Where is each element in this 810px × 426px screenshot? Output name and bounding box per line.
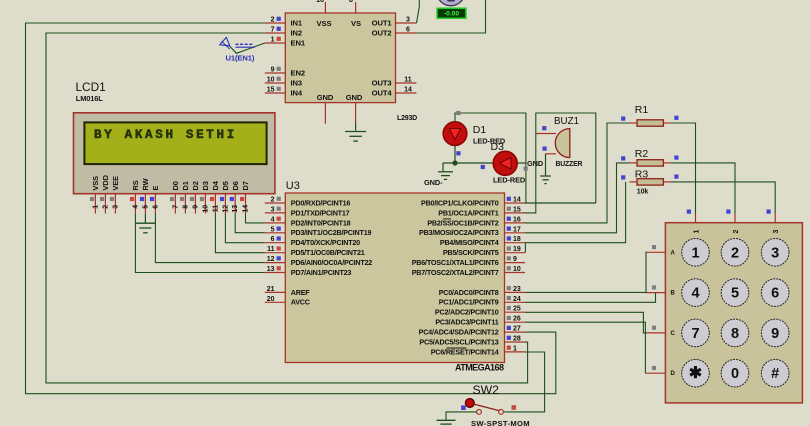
svg-text:EN1: EN1 (291, 39, 306, 48)
svg-text:LCD1: LCD1 (76, 80, 106, 94)
svg-text:#: # (771, 366, 779, 382)
U3 pin 28 (PC5) stub (505, 341, 526, 343)
wire buzzer pin2 to ground (545, 154, 547, 176)
keypad button # (761, 359, 789, 387)
L293D pin 2 indicator square (277, 17, 281, 21)
svg-text:AREF: AREF (291, 288, 311, 297)
svg-text:9: 9 (513, 256, 517, 263)
svg-text:RS: RS (131, 180, 140, 190)
svg-text:19: 19 (513, 246, 521, 253)
U3 pin 26 (PC3) stub (505, 321, 526, 323)
L293D GND pin lead right (355, 103, 357, 123)
LCD pin 3 lead (114, 194, 116, 214)
svg-text:B: B (671, 291, 676, 297)
U3 pin 23 indicator square (507, 286, 511, 290)
U3 pin 25 indicator square (507, 306, 511, 310)
motor (clipped at top edge) (437, 0, 465, 6)
keypad button 6 (761, 279, 789, 307)
svg-text:2: 2 (271, 197, 275, 204)
svg-text:EN2: EN2 (291, 69, 305, 78)
U3 pin 13 indicator square (277, 266, 281, 270)
svg-text:PD2/INT0/PCINT18: PD2/INT0/PCINT18 (291, 218, 351, 227)
svg-text:7: 7 (271, 27, 275, 34)
L293D pin EN1 (pin 1) stub (265, 42, 286, 44)
U3 pin 12 indicator square (277, 256, 281, 260)
svg-text:D3: D3 (491, 141, 505, 153)
U3 pin 3 indicator square (277, 207, 281, 211)
wire D1 anode to ATmega pin 14 (455, 113, 526, 203)
U3 pin 16 (PB2) stub (505, 222, 526, 224)
buzzer pin 2 lead (546, 153, 557, 155)
svg-text:D: D (671, 371, 676, 377)
L293D pin IN1 (pin 2) stub (265, 22, 286, 24)
svg-text:11: 11 (267, 246, 275, 253)
LCD pin 14 indicator square (240, 197, 244, 201)
U3 pin 18 (PB4) stub (505, 242, 526, 244)
U3 pin 16 indicator square (507, 217, 511, 221)
keypad button 5 (721, 279, 749, 307)
keypad column 3 pin lead (774, 214, 776, 223)
IC U3 ATMEGA168 body (285, 193, 504, 363)
svg-text:VSS: VSS (317, 19, 332, 28)
wire junction to ground left (442, 163, 444, 171)
wire LCD D5 to ATmega pin 6 (225, 214, 264, 243)
U3 pin 27 indicator square (507, 326, 511, 330)
svg-text:OUT2: OUT2 (372, 29, 392, 38)
terminal symbol U1(EN1) (220, 37, 230, 45)
svg-text:7: 7 (172, 205, 179, 209)
svg-text:PC0/ADC0/PCINT8: PC0/ADC0/PCINT8 (439, 288, 499, 297)
U3 pin 5 indicator square (277, 227, 281, 231)
L293D pin VSS top lead (324, 2, 326, 13)
junction node at D1/D3/ground (452, 160, 457, 165)
svg-text:3: 3 (406, 17, 410, 24)
LCD pin 10 lead (204, 194, 206, 214)
buzzer BUZ1 body (555, 129, 570, 158)
svg-text:VSS: VSS (91, 176, 100, 191)
svg-text:8: 8 (349, 0, 353, 4)
svg-text:IN4: IN4 (291, 89, 303, 98)
keypad row A pin lead (645, 251, 665, 253)
L293D GND pin lead left (unconnected) (324, 103, 326, 124)
svg-text:14: 14 (242, 205, 249, 213)
LCD LCD1 frame (74, 113, 275, 194)
LCD pin 1 indicator square (90, 197, 94, 201)
keypad row B indicator square (652, 285, 656, 289)
svg-text:5: 5 (142, 205, 149, 209)
indicator square buzzer pin2 (543, 147, 547, 151)
junction square at D1 top wire (456, 111, 460, 115)
U3 pin 18 indicator square (507, 236, 511, 240)
keypad column 3 indicator square (767, 210, 771, 214)
svg-text:12: 12 (267, 256, 275, 263)
svg-text:-0.00: -0.00 (444, 11, 459, 18)
buzzer pin 1 lead (536, 133, 556, 135)
keypad button 7 (682, 319, 710, 347)
svg-text:R1: R1 (635, 104, 649, 116)
svg-text:LM016L: LM016L (76, 94, 104, 103)
svg-text:15: 15 (267, 87, 275, 94)
overline on RESET of PC6 pin name (447, 347, 467, 349)
keypad button 8 (721, 319, 749, 347)
svg-text:PC1/ADC1/PCINT9: PC1/ADC1/PCINT9 (439, 298, 499, 307)
U3 pin 6 (PD4) stub (265, 242, 286, 244)
svg-text:AVCC: AVCC (291, 298, 310, 307)
svg-text:9: 9 (771, 326, 779, 342)
keypad row C pin lead (645, 332, 665, 334)
svg-text:6: 6 (406, 27, 410, 34)
svg-text:PB0/ICP1/CLKO/PCINT0: PB0/ICP1/CLKO/PCINT0 (421, 198, 499, 207)
indicator squares R3 (621, 175, 625, 179)
svg-text:3: 3 (271, 206, 275, 213)
svg-text:SW-SPST-MOM: SW-SPST-MOM (471, 419, 530, 426)
resistor R3 body (637, 179, 663, 185)
svg-text:16: 16 (316, 0, 324, 4)
wire LCD D7 to ATmega pin 4 (246, 214, 265, 223)
svg-text:4: 4 (271, 216, 275, 223)
U3 pin 9 (PB6) stub (505, 262, 526, 264)
svg-text:4: 4 (691, 286, 699, 302)
svg-text:1: 1 (693, 230, 700, 234)
svg-text:10k: 10k (637, 188, 649, 195)
svg-text:15: 15 (513, 206, 521, 213)
svg-text:8: 8 (731, 326, 739, 342)
LCD pin 1 lead (94, 194, 96, 214)
svg-text:1: 1 (92, 205, 99, 209)
svg-text:12: 12 (222, 205, 229, 213)
svg-text:PB2/SS/OC1B/PCINT2: PB2/SS/OC1B/PCINT2 (427, 218, 498, 227)
keypad column 2 pin lead (734, 214, 736, 223)
svg-text:6: 6 (152, 205, 159, 209)
svg-text:8: 8 (182, 205, 189, 209)
svg-text:BUZZER: BUZZER (556, 161, 583, 168)
indicator square buzzer pin1 (542, 126, 546, 130)
switch SW2 left pole (477, 410, 482, 415)
wire ATmega pin26 to keypad row D (525, 322, 645, 373)
svg-text:VS: VS (351, 19, 361, 28)
svg-text:U1(EN1): U1(EN1) (226, 54, 255, 63)
svg-text:OUT4: OUT4 (372, 89, 393, 98)
svg-text:PC5/ADC5/SCL/PCINT13: PC5/ADC5/SCL/PCINT13 (419, 337, 498, 346)
U3 pin 25 (PC2) stub (505, 311, 526, 313)
wire ATmega pin16 to R1 (525, 123, 630, 223)
wire buzzer pin1 up and over to pin14 net (536, 113, 596, 203)
LCD pin 8 indicator square (180, 197, 184, 201)
svg-text:RW: RW (141, 178, 150, 190)
svg-text:U3: U3 (286, 180, 300, 192)
switch SW2 actuator knob (465, 399, 474, 408)
svg-text:1: 1 (271, 37, 275, 44)
svg-text:PD1/TXD/PCINT17: PD1/TXD/PCINT17 (291, 208, 350, 217)
U3 pin 4 (PD2) stub (265, 222, 286, 224)
svg-text:PD6/AIN0/OC0A/PCINT22: PD6/AIN0/OC0A/PCINT22 (291, 258, 372, 267)
LCD pin 6 indicator square (150, 197, 154, 201)
keypad column 2 indicator square (726, 210, 730, 214)
L293D pin IN3 (pin 10) stub (265, 82, 286, 84)
svg-text:3: 3 (773, 230, 780, 234)
svg-text:IN2: IN2 (291, 29, 303, 38)
U3 pin 15 (PB1) stub (505, 212, 526, 214)
svg-text:PB5/SCK/PCINT5: PB5/SCK/PCINT5 (443, 248, 499, 257)
U3 pin 14 indicator square (507, 197, 511, 201)
L293D pin 7 indicator square (277, 27, 281, 31)
wire R3 to keypad column 3 (671, 182, 775, 214)
LCD screen (84, 122, 266, 164)
wire D1 cathode down to junction (454, 145, 456, 163)
motor rpm display (437, 8, 466, 18)
U3 pin 12 (PD6) stub (265, 262, 286, 264)
wire ATmega pin24 to keypad row B (525, 293, 656, 303)
svg-text:D2: D2 (191, 181, 200, 190)
wire buzzer pin1 down to ATmega pin 15 (525, 134, 536, 213)
svg-text:PB6/TOSC1/XTAL1/PCINT6: PB6/TOSC1/XTAL1/PCINT6 (412, 258, 499, 267)
U3 pin 19 indicator square (507, 246, 511, 250)
svg-text:21: 21 (267, 286, 275, 293)
svg-text:11: 11 (404, 77, 412, 84)
LCD pin 11 indicator square (210, 197, 214, 201)
U3 pin 15 indicator square (507, 207, 511, 211)
U3 pin 5 (PD3) stub (265, 232, 286, 234)
wire SW2 left pole to ground (446, 412, 477, 420)
svg-text:E: E (151, 186, 160, 191)
L293D pin OUT4 (pin 14) stub (396, 92, 417, 94)
wire D3 cathode to GND net (517, 162, 526, 164)
U3 pin 14 (PB0) stub (505, 202, 526, 204)
svg-text:6: 6 (771, 286, 779, 302)
LCD pin 10 indicator square (200, 197, 204, 201)
LCD pin 13 indicator square (230, 197, 234, 201)
LCD pin 7 lead (174, 194, 176, 214)
LCD pin 4 indicator square (130, 197, 134, 201)
overline on SS of PB2 pin name (443, 218, 451, 220)
keypad row C indicator square (652, 326, 656, 330)
keypad button 3 (761, 239, 789, 267)
svg-text:SW2: SW2 (473, 383, 500, 397)
L293D pin 1 indicator square (277, 37, 281, 41)
svg-text:OUT3: OUT3 (372, 79, 392, 88)
wire LCD E to ATmega pin 12 (155, 214, 264, 263)
U3 pin 23 (PC0) stub (505, 291, 526, 293)
LCD pin 14 lead (245, 194, 247, 214)
U3 pin 24 indicator square (507, 296, 511, 300)
svg-text:PD7/AIN1/PCINT23: PD7/AIN1/PCINT23 (291, 268, 352, 277)
svg-text:5: 5 (271, 226, 275, 233)
ground below SW2 (437, 419, 456, 421)
svg-text:16: 16 (513, 216, 521, 223)
ground below LCD RW (135, 222, 155, 224)
svg-text:17: 17 (513, 226, 521, 233)
L293D pin OUT3 (pin 11) stub (396, 82, 417, 84)
LCD pin 7 indicator square (170, 197, 174, 201)
U3 pin 4 indicator square (277, 217, 281, 221)
wire LCD D4 to ATmega pin 11 (215, 214, 264, 253)
svg-text:5: 5 (731, 286, 739, 302)
U3 pin 2 indicator square (277, 197, 281, 201)
svg-text:D1: D1 (473, 124, 487, 136)
L293D pin IN2 (pin 7) stub (265, 32, 286, 34)
svg-text:10: 10 (267, 77, 275, 84)
U3 pin 11 (PD5) stub (265, 252, 286, 254)
svg-text:PB7/TOSC2/XTAL2/PCINT7: PB7/TOSC2/XTAL2/PCINT7 (412, 268, 499, 277)
svg-text:10: 10 (513, 266, 521, 273)
wire ATmega pin1 to SW2 (504, 352, 545, 412)
U3 pin 21 (AREF) stub (265, 291, 286, 293)
svg-text:VEE: VEE (111, 176, 120, 191)
svg-text:GND-: GND- (424, 178, 443, 187)
svg-text:PC6/RESET/PCINT14: PC6/RESET/PCINT14 (431, 347, 499, 356)
keypad column 1 pin lead (695, 214, 697, 223)
wire ATmega pin19 tie to pin18 net (524, 243, 526, 253)
switch SW2 lever (472, 404, 500, 411)
svg-text:PB4/MISO/PCINT4: PB4/MISO/PCINT4 (440, 238, 499, 247)
svg-text:L293D: L293D (397, 115, 417, 122)
L293D pin OUT1 (pin 3) stub (396, 22, 417, 24)
keypad button 0 (721, 359, 749, 387)
LCD pin 3 indicator square (110, 197, 114, 201)
U3 pin 26 indicator square (507, 316, 511, 320)
svg-text:PB3/MOSI/OC2A/PCINT3: PB3/MOSI/OC2A/PCINT3 (419, 228, 499, 237)
LCD pin 8 lead (184, 194, 186, 214)
ground below buzzer (540, 175, 551, 177)
LCD pin 12 lead (224, 194, 226, 214)
U3 pin 27 (PC4) stub (505, 331, 526, 333)
svg-text:✱: ✱ (689, 365, 702, 382)
svg-text:D1: D1 (181, 181, 190, 190)
U3 pin 9 indicator square (507, 256, 511, 260)
svg-text:PD3/INT1/OC2B/PCINT19: PD3/INT1/OC2B/PCINT19 (291, 228, 372, 237)
U3 pin 28 indicator square (507, 336, 511, 340)
wire LCD D6 to ATmega pin 5 (235, 214, 265, 233)
wire OUT2 to motor (417, 0, 486, 33)
LCD pin 6 lead (154, 194, 156, 214)
svg-text:PD5/T1/OC0B/PCINT21: PD5/T1/OC0B/PCINT21 (291, 248, 365, 257)
svg-text:BY AKASH SETHI: BY AKASH SETHI (94, 128, 237, 142)
U3 pin 6 indicator square (277, 236, 281, 240)
svg-text:26: 26 (513, 316, 521, 323)
U3 pin 20 (AVCC) stub (265, 301, 286, 303)
svg-text:PC3/ADC3/PCINT11: PC3/ADC3/PCINT11 (435, 318, 498, 327)
svg-text:1: 1 (691, 245, 699, 261)
svg-text:BUZ1: BUZ1 (554, 116, 579, 127)
L293D pin VS top lead (355, 2, 357, 13)
svg-text:3: 3 (771, 245, 779, 261)
svg-text:D5: D5 (221, 181, 230, 190)
L293D pin IN4 (pin 15) stub (265, 92, 286, 94)
wire net IN2 - left loop to ATmega pin 28 (46, 33, 528, 383)
svg-text:1: 1 (513, 345, 517, 352)
indicator square on D3 left wire (481, 165, 485, 169)
wire L293D GND to ground (355, 123, 357, 131)
wire ATmega pin18 to R3 (525, 182, 626, 243)
LCD pin 12 indicator square (220, 197, 224, 201)
U3 pin 24 (PC1) stub (505, 301, 526, 303)
switch SW2 right pole (499, 410, 504, 415)
wire R2 to keypad column 2 (671, 163, 735, 214)
svg-text:IN3: IN3 (291, 79, 303, 88)
svg-text:23: 23 (513, 286, 521, 293)
keypad button 1 (682, 239, 710, 267)
LCD pin 2 indicator square (100, 197, 104, 201)
U3 pin 17 indicator square (507, 227, 511, 231)
svg-text:3: 3 (112, 205, 119, 209)
svg-text:GND: GND (346, 93, 363, 102)
svg-text:PB1/OC1A/PCINT1: PB1/OC1A/PCINT1 (438, 208, 498, 217)
svg-text:2: 2 (731, 245, 739, 261)
LCD pin 9 indicator square (190, 197, 194, 201)
wire junction to D3 anode (443, 162, 493, 164)
svg-text:GND: GND (317, 93, 334, 102)
svg-text:LED-RED: LED-RED (493, 176, 526, 185)
U3 pin 13 (PD7) stub (265, 272, 286, 274)
keypad button ✱ (682, 359, 710, 387)
LED D1 (443, 122, 467, 146)
keypad row A indicator square (652, 245, 656, 249)
svg-text:0: 0 (731, 366, 739, 382)
LCD pin 4 lead (134, 194, 136, 214)
indicator square SW2 left (461, 405, 466, 410)
indicator square SW2 right (512, 405, 517, 410)
svg-text:D4: D4 (211, 180, 220, 190)
ground left of D3 (438, 171, 453, 173)
U3 pin 17 (PB3) stub (505, 232, 526, 234)
svg-text:PC4/ADC4/SDA/PCINT12: PC4/ADC4/SDA/PCINT12 (419, 328, 499, 337)
svg-text:14: 14 (404, 87, 412, 94)
svg-text:11: 11 (212, 205, 219, 213)
keypad column 1 indicator square (687, 210, 691, 214)
L293D pin 9 indicator square (277, 67, 281, 71)
indicator squares R1 (621, 117, 625, 121)
wire ATmega pin25 to keypad row C (525, 312, 645, 333)
svg-text:PC2/ADC2/PCINT10: PC2/ADC2/PCINT10 (435, 308, 499, 317)
svg-text:27: 27 (513, 326, 521, 333)
svg-text:9: 9 (192, 205, 199, 209)
svg-text:20: 20 (267, 296, 275, 303)
svg-text:14: 14 (513, 197, 521, 204)
svg-text:7: 7 (691, 326, 699, 342)
LCD pin 5 indicator square (140, 197, 144, 201)
svg-text:2: 2 (102, 205, 109, 209)
svg-text:24: 24 (513, 296, 521, 303)
L293D pin OUT2 (pin 6) stub (396, 32, 417, 34)
svg-text:IN1: IN1 (291, 19, 303, 28)
svg-text:6: 6 (271, 236, 275, 243)
keypad button 4 (682, 279, 710, 307)
keypad row D indicator square (652, 366, 656, 370)
wire R1 to keypad column 1 (671, 123, 696, 214)
L293D pin EN2 (pin 9) stub (265, 72, 286, 74)
svg-text:25: 25 (513, 306, 521, 313)
LCD pin 13 lead (234, 194, 236, 214)
wire EN1 to terminal U1(EN1) (229, 43, 265, 53)
svg-text:18: 18 (513, 236, 521, 243)
indicator square at D3 cathode (524, 167, 528, 171)
svg-text:13: 13 (232, 205, 239, 213)
svg-text:D7: D7 (241, 181, 250, 190)
svg-text:VDD: VDD (101, 174, 110, 190)
LCD pin 11 lead (214, 194, 216, 214)
U3 pin 1 indicator square (507, 346, 511, 350)
U3 pin 2 (PD0) stub (265, 202, 286, 204)
resistor R1 body (637, 120, 663, 126)
U3 pin 19 (PB5) stub (505, 252, 526, 254)
LCD pin 2 lead (104, 194, 106, 214)
wire ATmega pin14 row (525, 202, 596, 204)
L293D pin 15 indicator square (277, 87, 281, 91)
svg-text:13: 13 (267, 266, 275, 273)
keypad button 2 (721, 239, 749, 267)
svg-text:2: 2 (733, 230, 740, 234)
U3 pin 10 (PB7) stub (505, 272, 526, 274)
